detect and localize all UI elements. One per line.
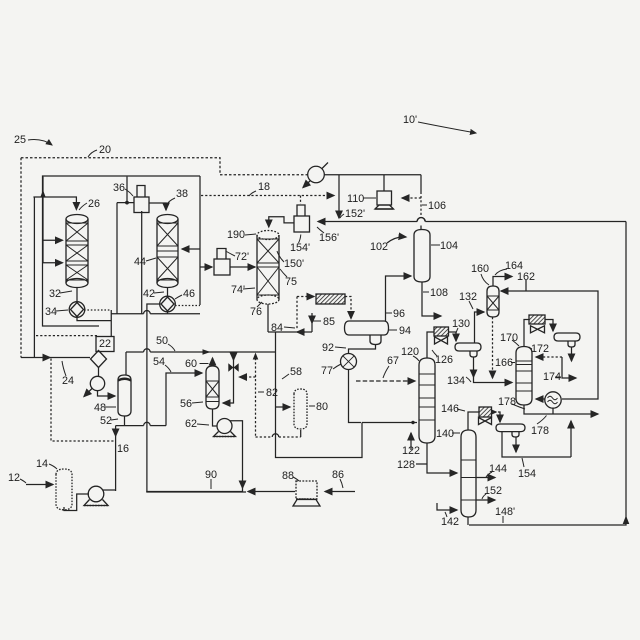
svg-text:88: 88: [282, 470, 294, 482]
svg-text:67: 67: [387, 355, 399, 367]
svg-text:18: 18: [258, 181, 270, 193]
svg-text:142: 142: [441, 516, 459, 528]
svg-text:58: 58: [290, 366, 302, 378]
svg-text:128: 128: [397, 459, 415, 471]
svg-text:24: 24: [62, 375, 74, 387]
svg-text:62: 62: [185, 418, 197, 430]
svg-text:82: 82: [266, 387, 278, 399]
svg-text:154: 154: [518, 468, 536, 480]
svg-text:172: 172: [531, 343, 549, 355]
svg-text:106: 106: [428, 200, 446, 212]
svg-text:146: 146: [441, 403, 459, 415]
svg-text:130: 130: [452, 318, 470, 330]
svg-text:10': 10': [403, 114, 417, 126]
svg-text:38: 38: [176, 188, 188, 200]
svg-text:152: 152: [484, 485, 502, 497]
svg-text:122: 122: [402, 445, 420, 457]
svg-text:86: 86: [332, 469, 344, 481]
svg-text:148': 148': [495, 506, 515, 518]
svg-text:110: 110: [347, 193, 364, 205]
svg-text:46: 46: [183, 288, 195, 300]
svg-text:102: 102: [370, 241, 388, 253]
svg-text:74': 74': [231, 284, 245, 296]
svg-text:34: 34: [45, 306, 57, 318]
svg-text:25: 25: [14, 134, 26, 146]
svg-text:134: 134: [447, 375, 465, 387]
svg-text:162: 162: [517, 271, 535, 283]
svg-text:144: 144: [489, 463, 507, 475]
svg-text:80: 80: [316, 401, 328, 413]
svg-text:75: 75: [285, 276, 297, 288]
svg-text:120: 120: [401, 346, 419, 358]
svg-text:152': 152': [345, 208, 365, 220]
svg-text:156': 156': [319, 232, 339, 244]
svg-text:77: 77: [321, 365, 333, 377]
svg-text:85: 85: [323, 316, 335, 328]
svg-text:178: 178: [531, 425, 549, 437]
svg-text:32: 32: [49, 288, 61, 300]
svg-text:94: 94: [399, 325, 411, 337]
svg-text:72': 72': [235, 251, 249, 263]
svg-text:20: 20: [99, 144, 111, 156]
svg-text:48: 48: [94, 402, 106, 414]
svg-text:140: 140: [436, 428, 454, 440]
svg-text:108: 108: [430, 287, 448, 299]
svg-text:16: 16: [117, 443, 129, 455]
svg-text:26: 26: [88, 198, 100, 210]
svg-text:190: 190: [227, 229, 245, 241]
svg-text:60: 60: [185, 358, 197, 370]
svg-text:36: 36: [113, 182, 125, 194]
svg-text:132: 132: [459, 291, 477, 303]
svg-text:178: 178: [498, 396, 516, 408]
svg-text:22: 22: [99, 338, 111, 350]
svg-text:126: 126: [435, 354, 453, 366]
svg-text:50: 50: [156, 335, 168, 347]
svg-text:150': 150': [284, 258, 304, 270]
svg-text:92: 92: [322, 342, 334, 354]
svg-text:14: 14: [36, 458, 48, 470]
svg-text:96: 96: [393, 308, 405, 320]
svg-text:104: 104: [440, 240, 458, 252]
svg-text:154': 154': [290, 242, 310, 254]
svg-text:56: 56: [180, 398, 192, 410]
svg-text:12: 12: [8, 472, 20, 484]
svg-text:84: 84: [271, 322, 283, 334]
svg-text:76: 76: [250, 306, 262, 318]
svg-text:54: 54: [153, 356, 165, 368]
svg-text:166: 166: [495, 357, 513, 369]
svg-text:52: 52: [100, 415, 112, 427]
svg-text:160: 160: [471, 263, 489, 275]
svg-text:44: 44: [134, 256, 146, 268]
svg-text:42: 42: [143, 288, 155, 300]
